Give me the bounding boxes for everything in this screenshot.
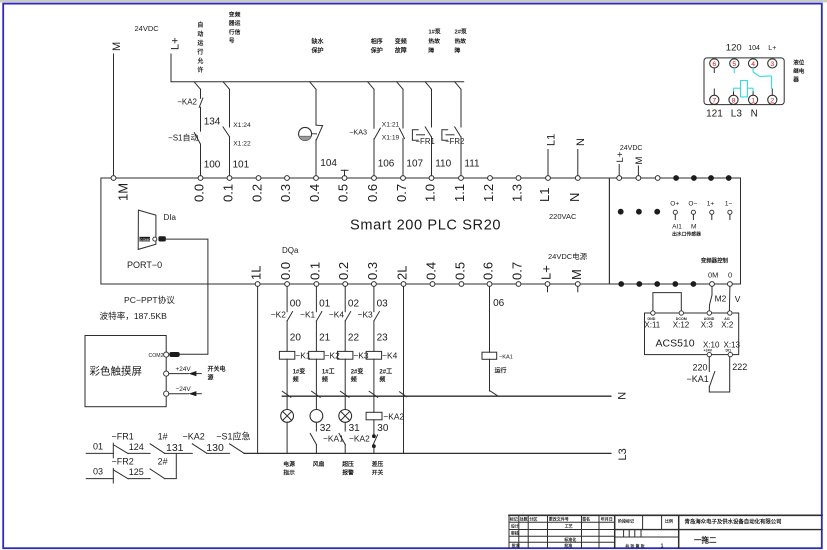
svg-text:器: 器 — [792, 76, 799, 84]
svg-text:0.5: 0.5 — [452, 262, 467, 280]
svg-text:1M: 1M — [116, 183, 131, 201]
expansion top terminals — [617, 175, 732, 181]
svg-text:差压: 差压 — [372, 460, 384, 468]
svg-text:32: 32 — [320, 423, 332, 434]
svg-text:DI1: DI1 — [726, 349, 732, 353]
svg-text:出水口传感器: 出水口传感器 — [672, 230, 701, 237]
svg-text:行: 行 — [196, 48, 203, 56]
svg-text:允: 允 — [196, 57, 203, 65]
wire 00 from output terminal — [287, 286, 301, 311]
svg-text:青岛海众电子及供水设备自动化有限公司: 青岛海众电子及供水设备自动化有限公司 — [685, 518, 782, 526]
svg-text:00: 00 — [290, 299, 302, 310]
wire coil KA1 to N bus jog — [490, 359, 498, 396]
svg-text:M: M — [634, 157, 645, 165]
svg-text:X1:19: X1:19 — [382, 135, 400, 142]
indicator lamp power (0.0 col) — [281, 397, 294, 453]
wire L+ down to bus — [170, 54, 172, 82]
svg-text:X:2: X:2 — [721, 321, 734, 330]
svg-text:1: 1 — [751, 97, 755, 104]
wire M down to 1M — [113, 54, 115, 176]
wire 106 to terminal 0.6 — [374, 139, 395, 176]
svg-text:保护: 保护 — [370, 46, 383, 54]
wire 220 — [692, 357, 709, 373]
relay coil &#8722;K1 — [279, 350, 310, 360]
svg-text:−KA2: −KA2 — [183, 432, 205, 442]
stub below bottom M terminal — [577, 286, 579, 291]
wire: bus jog to input 0.1 — [223, 82, 229, 90]
svg-text:06: 06 — [493, 298, 505, 309]
svg-text:工艺: 工艺 — [565, 523, 573, 529]
label: xiangxu baohu (col 0.6) — [370, 38, 383, 55]
svg-text:5: 5 — [732, 61, 736, 68]
svg-text:−K3: −K3 — [358, 310, 373, 320]
wire 110 to terminal — [432, 137, 452, 176]
ACS510 frequency drive box — [645, 313, 739, 355]
svg-text:0: 0 — [728, 271, 732, 280]
svg-text:热故: 热故 — [455, 37, 467, 45]
svg-text:液位: 液位 — [793, 59, 805, 67]
wire 222 loop back to X:13 — [709, 357, 747, 392]
wire M2 from 0M to X:3 — [709, 286, 726, 310]
title block table — [509, 515, 822, 548]
svg-text:动: 动 — [197, 30, 203, 38]
svg-text:0.4: 0.4 — [424, 262, 439, 280]
svg-text:X:3: X:3 — [701, 321, 714, 330]
title block small texts — [509, 516, 673, 550]
svg-text:1.3: 1.3 — [510, 184, 525, 202]
svg-text:134: 134 — [204, 117, 221, 128]
svg-text:PORT−0: PORT−0 — [127, 260, 162, 270]
svg-text:L+: L+ — [768, 45, 776, 52]
svg-text:1.2: 1.2 — [481, 184, 496, 202]
wire 107 to terminal 0.7 — [403, 139, 424, 176]
svg-text:4: 4 — [751, 61, 755, 68]
label 1#工频 — [322, 369, 335, 384]
wire loop X:11 to X:12 — [653, 293, 681, 311]
svg-text:−S1应急: −S1应急 — [216, 431, 250, 442]
svg-text:0.3: 0.3 — [278, 184, 293, 202]
svg-text:2L: 2L — [395, 266, 410, 280]
stub below bottom L+ terminal — [547, 286, 549, 291]
interlock contact &#8722;K3 — [358, 310, 380, 321]
level relay socket KA? box — [704, 58, 784, 105]
PLC U1 Smart 200 PLC SR20 main box — [101, 178, 610, 284]
wire V from 0 to X:2 — [729, 286, 740, 310]
svg-text:−KA2: −KA2 — [177, 98, 197, 107]
contact -KA3 (X1:21/X1:19) column 0.6 — [349, 89, 399, 141]
relay pin labels 120 104 L+ — [726, 43, 776, 54]
svg-text:L+: L+ — [615, 151, 626, 162]
svg-text:24VDC: 24VDC — [620, 145, 643, 152]
svg-text:0.7: 0.7 — [510, 262, 525, 280]
svg-text:L3: L3 — [731, 109, 743, 120]
svg-text:处数: 处数 — [519, 516, 528, 522]
wire 101 to terminal 0.1 — [230, 137, 250, 176]
terminal -24V with arrow — [164, 386, 202, 396]
float switch (level sensor) column 0.4 — [299, 89, 323, 140]
svg-text:104: 104 — [748, 45, 760, 52]
svg-text:124: 124 — [129, 442, 144, 452]
svg-text:保护: 保护 — [311, 46, 324, 54]
thermal contact -FR1 column 1.0 — [412, 89, 434, 146]
svg-text:设计: 设计 — [511, 523, 519, 529]
svg-text:L+: L+ — [170, 37, 182, 50]
wire 06 from output 0.6 — [490, 286, 505, 352]
wire 104 to terminal 0.4 — [316, 140, 337, 176]
svg-text:波特率，187.5KB: 波特率，187.5KB — [100, 310, 168, 321]
label: queshui baohu (col 0.4) — [311, 38, 325, 55]
svg-text:111: 111 — [464, 159, 480, 170]
svg-text:0.1: 0.1 — [221, 184, 236, 202]
svg-text:器运: 器运 — [228, 19, 241, 27]
svg-text:更改文件号: 更改文件号 — [549, 516, 569, 522]
svg-text:−K2: −K2 — [271, 310, 286, 320]
labels 0M 0 — [708, 271, 732, 280]
svg-text:31: 31 — [349, 423, 361, 434]
svg-text:L3: L3 — [617, 448, 629, 460]
svg-text:频: 频 — [379, 376, 385, 384]
svg-text:0.4: 0.4 — [307, 184, 322, 202]
L3 bus line — [244, 448, 629, 460]
wire PORT-0 to COM2 — [166, 239, 208, 354]
svg-text:频: 频 — [293, 376, 299, 384]
svg-text:−K4: −K4 — [329, 310, 344, 320]
svg-text:一拖二: 一拖二 — [694, 535, 717, 545]
svg-text:自: 自 — [197, 21, 203, 29]
contact -KA2 below alarm lamp — [339, 433, 370, 453]
svg-text:变频器控制: 变频器控制 — [701, 256, 729, 264]
svg-text:DQa: DQa — [282, 246, 299, 255]
svg-text:审核: 审核 — [511, 530, 519, 536]
thermal contact -FR2 column 1.1 — [442, 89, 464, 146]
relay internal contact (cyan) pin4-pin3 — [734, 68, 771, 89]
relay coil &#8722;K2 — [309, 350, 340, 360]
svg-text:继电: 继电 — [793, 67, 805, 75]
svg-text:ACS510: ACS510 — [656, 338, 695, 350]
contact -KA1 (drive start) — [687, 372, 715, 388]
svg-text:0.2: 0.2 — [336, 262, 351, 280]
contact X1:24/X1:22 in column 0.1 — [223, 89, 251, 147]
svg-text:220: 220 — [692, 363, 707, 373]
wire coil &#8722;K4 to N bus with jog — [369, 359, 378, 397]
svg-text:1.1: 1.1 — [452, 184, 467, 202]
wire 23 — [374, 321, 388, 352]
svg-text:PC−PPT协议: PC−PPT协议 — [124, 294, 175, 305]
svg-text:1#泵: 1#泵 — [428, 28, 440, 36]
wire 2L down through N to L3 — [400, 286, 407, 453]
PLC top terminal labels (rotated) — [116, 183, 583, 202]
wire: bus jog to input 1.1 — [455, 82, 461, 90]
label dianyuan zhishi — [283, 460, 295, 476]
contact in column 0.7 — [399, 89, 404, 138]
svg-text:X1:21: X1:21 — [382, 121, 400, 128]
svg-text:−KA1: −KA1 — [499, 354, 513, 360]
svg-text:2#泵: 2#泵 — [455, 28, 467, 36]
labels AI1 M — [672, 224, 696, 231]
relay coil -KA1 (run) — [482, 352, 513, 374]
grey top strip — [0, 0, 827, 2]
svg-text:7: 7 — [712, 97, 716, 104]
svg-text:号: 号 — [229, 37, 235, 45]
label 1#变频 — [293, 368, 306, 384]
svg-text:1−: 1− — [725, 200, 733, 207]
label: bianpin guzhang (col 0.7) — [395, 38, 407, 55]
svg-text:标准化: 标准化 — [563, 536, 576, 542]
node N (top) — [575, 138, 587, 176]
unused stub terminal 0.5 — [341, 170, 348, 175]
relay coil -KA2 (0.3 col) — [366, 397, 404, 434]
svg-text:O+: O+ — [670, 200, 679, 207]
svg-text:1#: 1# — [158, 432, 168, 442]
svg-text:21: 21 — [319, 333, 331, 344]
svg-text:报警: 报警 — [342, 468, 354, 476]
wire 111 to terminal — [461, 137, 480, 176]
contact -S1 emergency — [216, 431, 250, 454]
switch -S1 auto (NO) in column 0.0 — [168, 133, 200, 145]
svg-text:共 张 第 张: 共 张 第 张 — [625, 542, 645, 548]
svg-text:签名: 签名 — [581, 516, 590, 522]
svg-text:1.0: 1.0 — [423, 184, 438, 202]
wire coil &#8722;K3 to N bus with jog — [340, 359, 349, 397]
svg-text:−KA2: −KA2 — [383, 411, 404, 421]
svg-text:130: 130 — [206, 442, 224, 454]
svg-text:AI1: AI1 — [672, 224, 682, 231]
svg-text:运行: 运行 — [495, 367, 507, 375]
svg-text:超压: 超压 — [341, 460, 354, 468]
svg-text:−24V: −24V — [176, 386, 192, 393]
expansion L+ feeder — [615, 145, 645, 176]
contact -KA2 wire 130 — [183, 432, 230, 455]
svg-text:8: 8 — [732, 97, 736, 104]
svg-text:频: 频 — [322, 376, 328, 384]
svg-text:20: 20 — [290, 333, 302, 344]
wire 03 from output terminal — [374, 286, 388, 311]
label yewei jidianqi — [792, 59, 805, 84]
expansion interior power dots — [618, 209, 660, 215]
svg-text:障: 障 — [455, 46, 461, 54]
relay internal coil (cyan) — [734, 81, 754, 97]
terminal +24V with arrow — [164, 366, 202, 376]
svg-text:−K1: −K1 — [300, 310, 315, 320]
wire 01 — [86, 442, 113, 454]
node M (24VDC common) — [111, 42, 123, 176]
svg-text:03: 03 — [93, 467, 103, 477]
svg-text:1L: 1L — [249, 266, 264, 280]
svg-text:故障: 故障 — [395, 46, 407, 54]
wire 03 (row 2) — [86, 467, 113, 479]
N bus line — [282, 392, 628, 400]
svg-text:−KA3: −KA3 — [349, 128, 367, 137]
svg-text:101: 101 — [233, 160, 250, 171]
svg-text:分区: 分区 — [529, 516, 537, 522]
svg-text:相序: 相序 — [371, 38, 383, 46]
svg-text:2#变: 2#变 — [351, 368, 364, 376]
svg-text:COM0: COM0 — [140, 238, 150, 242]
svg-text:104: 104 — [320, 158, 337, 169]
svg-text:缺水: 缺水 — [312, 38, 325, 46]
svg-text:频: 频 — [351, 376, 357, 384]
svg-text:X:12: X:12 — [673, 321, 690, 330]
thermal contact -FR2 wire 125 — [112, 457, 151, 483]
svg-text:+24V: +24V — [176, 366, 192, 373]
svg-text:2: 2 — [770, 97, 774, 104]
svg-text:−KA1: −KA1 — [687, 374, 709, 384]
svg-text:220VAC: 220VAC — [549, 212, 577, 221]
wire 01 from output terminal — [316, 286, 330, 311]
svg-text:100: 100 — [204, 160, 221, 171]
svg-text:风扇: 风扇 — [313, 460, 325, 468]
svg-text:24VDC: 24VDC — [135, 24, 160, 33]
svg-text:120: 120 — [726, 43, 742, 54]
svg-text:L1: L1 — [537, 188, 552, 202]
svg-text:运: 运 — [197, 39, 203, 47]
interlock contact &#8722;K1 — [300, 310, 322, 321]
wire 22 — [345, 321, 359, 352]
wire: bus jog to input 0.4 — [310, 82, 316, 90]
svg-text:X1:22: X1:22 — [233, 141, 251, 148]
svg-text:O−: O− — [688, 200, 697, 207]
ACS510 bottom terminals X:10 X:13 — [703, 341, 741, 357]
svg-text:222: 222 — [732, 362, 747, 372]
svg-text:电源: 电源 — [283, 460, 295, 468]
alarm lamp (0.2 col) — [339, 397, 360, 434]
relay pins top row 6 5 4 3 — [710, 59, 777, 68]
PLC top terminal row (1M,0.0-1.3,L1,N) — [111, 176, 580, 181]
svg-text:24VDC电源: 24VDC电源 — [548, 251, 588, 261]
svg-text:热故: 热故 — [428, 37, 440, 45]
svg-text:0.6: 0.6 — [481, 262, 496, 280]
svg-text:M: M — [691, 224, 696, 231]
svg-text:批准: 批准 — [564, 542, 572, 548]
fan symbol (0.1 col) — [310, 397, 331, 434]
PLC bottom terminal row (1L,0.0-0.3,2L,0.4-0.7,L+,M) — [255, 282, 580, 287]
terminal COM2 — [149, 352, 180, 359]
svg-text:年月日: 年月日 — [601, 516, 613, 522]
svg-text:L1: L1 — [546, 134, 558, 146]
svg-text:标记: 标记 — [509, 516, 518, 522]
svg-text:N: N — [751, 109, 758, 120]
PORT-0 serial connector U? — [127, 210, 166, 270]
svg-text:COM2: COM2 — [149, 353, 164, 359]
svg-text:3: 3 — [770, 61, 774, 68]
svg-text:开关: 开关 — [372, 468, 384, 476]
wire 100 to terminal 0.0 — [201, 144, 221, 175]
node L+ — [170, 37, 182, 81]
svg-text:1#工: 1#工 — [322, 369, 335, 376]
svg-text:1: 1 — [661, 543, 664, 549]
contact -KA1 below fan — [310, 433, 344, 453]
svg-text:源: 源 — [208, 374, 214, 382]
wire 20 — [287, 321, 301, 352]
label switching power supply — [208, 365, 226, 382]
svg-text:01: 01 — [319, 299, 331, 310]
svg-text:彩色触摸屏: 彩色触摸屏 — [90, 365, 143, 378]
relay pins bottom row 7 8 1 2 — [710, 95, 777, 104]
label chaoya baojing — [341, 460, 354, 476]
svg-text:0.6: 0.6 — [365, 184, 380, 202]
label: 2# beng re guzhang (col 1.1) — [455, 28, 467, 55]
color touch screen HMI box — [85, 336, 166, 407]
relay bottom labels 121 L3 N — [706, 109, 758, 120]
svg-text:0.3: 0.3 — [365, 262, 380, 280]
svg-text:1+: 1+ — [707, 200, 715, 207]
svg-text:M: M — [111, 42, 123, 51]
svg-text:0M: 0M — [708, 271, 718, 280]
svg-text:指示: 指示 — [283, 468, 295, 476]
expansion module box — [609, 178, 740, 284]
svg-text:变频: 变频 — [395, 38, 407, 46]
label: bianpinqi yunxing xinhao (col 0.1) — [228, 10, 241, 44]
svg-text:03: 03 — [377, 299, 389, 310]
wire 02 from output terminal — [345, 286, 359, 311]
svg-text:0.0: 0.0 — [192, 184, 207, 202]
ACS510 top terminals X:11 X:12 X:3 X:2 — [644, 311, 733, 330]
interlock contact &#8722;K4 — [329, 310, 351, 321]
label: 1# beng re guzhang (col 1.0) — [428, 28, 440, 55]
relay coil &#8722;K4 — [366, 350, 397, 360]
svg-text:−K4: −K4 — [382, 350, 397, 360]
svg-text:−FR2: −FR2 — [112, 457, 134, 467]
svg-text:125: 125 — [129, 467, 144, 477]
svg-text:L+: L+ — [539, 265, 554, 280]
relay pin stubs — [714, 68, 772, 95]
svg-text:0.7: 0.7 — [394, 184, 409, 202]
label 2#变频 — [351, 368, 364, 384]
contact 2# joining node 131 — [150, 453, 176, 478]
contact -KA2 (NO) in column 0.0 — [177, 89, 203, 107]
wire 134 — [201, 107, 221, 131]
wire: bus jog to input 0.7 — [397, 82, 403, 90]
svg-text:01: 01 — [93, 442, 103, 452]
label yaci kaiguan — [372, 460, 384, 476]
wire coil &#8722;K1 to N bus with jog — [282, 359, 291, 397]
interlock contact &#8722;K2 — [271, 310, 293, 321]
svg-text:−KA1: −KA1 — [323, 434, 344, 444]
svg-text:M: M — [569, 269, 584, 280]
svg-text:M2: M2 — [715, 294, 727, 304]
svg-text:N: N — [617, 392, 629, 400]
svg-text:−S1自动: −S1自动 — [168, 133, 198, 143]
svg-text:30: 30 — [377, 423, 389, 434]
svg-text:障: 障 — [428, 46, 434, 54]
svg-text:107: 107 — [406, 159, 423, 170]
wire: bus jog to input 1.0 — [425, 82, 431, 90]
svg-text:X:11: X:11 — [644, 321, 660, 330]
svg-text:变频: 变频 — [229, 10, 241, 18]
svg-text:开关电: 开关电 — [208, 365, 226, 373]
svg-text:Smart 200 PLC SR20: Smart 200 PLC SR20 — [350, 218, 501, 234]
svg-text:N: N — [567, 193, 582, 202]
label 2#工频 — [379, 369, 392, 384]
relay coil &#8722;K3 — [338, 350, 369, 360]
svg-text:02: 02 — [348, 299, 360, 310]
svg-text:1#变: 1#变 — [293, 368, 306, 376]
svg-text:许: 许 — [197, 66, 203, 74]
svg-text:阶段标记: 阶段标记 — [618, 518, 634, 524]
thermal contact -FR1 (horizontal) wire 124 — [112, 432, 151, 458]
svg-text:121: 121 — [706, 109, 723, 120]
svg-text:22: 22 — [348, 333, 360, 344]
svg-text:6: 6 — [712, 61, 716, 68]
svg-text:比例: 比例 — [665, 518, 673, 524]
node L1 — [546, 134, 558, 176]
label: zidong yunxing yunxu (col 0.0) — [196, 21, 203, 74]
svg-text:0.5: 0.5 — [336, 184, 351, 202]
svg-text:106: 106 — [378, 159, 395, 170]
svg-text:+24V: +24V — [704, 349, 713, 353]
analog terminals O+ O- 1+ 1- — [670, 200, 732, 219]
wire: bus jog to input 0.6 — [368, 82, 374, 90]
